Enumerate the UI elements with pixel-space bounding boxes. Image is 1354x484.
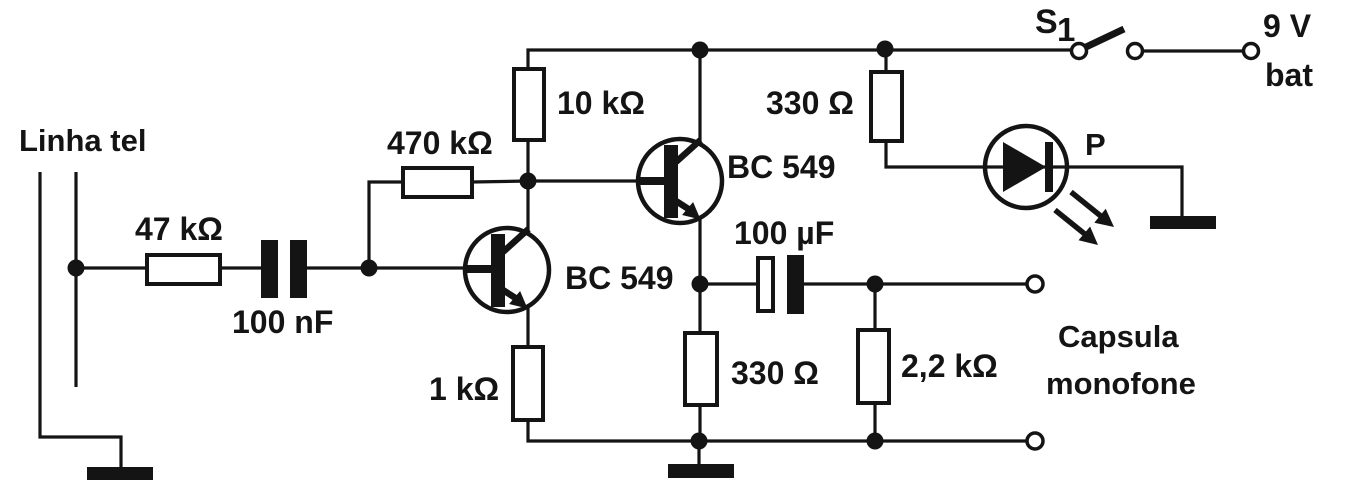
wire: top supply rail bbox=[528, 50, 1071, 69]
wire: 47k to C1 bbox=[222, 266, 262, 269]
capacitor C2 100 uF bbox=[758, 255, 804, 314]
ground (LED) bbox=[1150, 216, 1216, 229]
svg-text:100 µF: 100 µF bbox=[734, 215, 834, 251]
wire: node B to 10k bottom bbox=[526, 140, 529, 181]
svg-text:P: P bbox=[1085, 127, 1106, 162]
svg-text:2,2 kΩ: 2,2 kΩ bbox=[901, 348, 998, 384]
node C: emitter node bbox=[692, 276, 709, 293]
wire: 330 emitter resistor to rail bbox=[698, 405, 701, 441]
wire: telephone line conductor 2 bbox=[74, 172, 77, 387]
LED light arrow 2 bbox=[1055, 210, 1098, 245]
wire: C1 to node A bbox=[307, 266, 369, 269]
node B bbox=[520, 173, 537, 190]
resistor R2 470 kOhm bbox=[403, 168, 472, 197]
wire: ground stub bbox=[697, 441, 700, 466]
wire: node B down to Q1 collector bbox=[526, 181, 529, 231]
svg-text:S: S bbox=[1035, 3, 1058, 41]
node: rail / 2.2k bbox=[867, 433, 884, 450]
terminal: capsula bottom bbox=[1027, 433, 1043, 449]
wire: node D to 2.2k bbox=[873, 284, 876, 330]
transistor Q1 BC549 bbox=[465, 228, 549, 312]
resistor R6 2,2 kOhm bbox=[858, 330, 889, 403]
resistor R4 1 kOhm bbox=[513, 347, 543, 420]
svg-text:470 kΩ: 470 kΩ bbox=[387, 125, 493, 161]
wire: Q2 emitter down bbox=[698, 219, 701, 284]
wire: rail to 330 LED resistor bbox=[884, 50, 887, 72]
ground (telephone line) bbox=[87, 467, 153, 480]
wire: node A to Q1 base bbox=[369, 266, 466, 269]
wire: C2 to node D bbox=[804, 282, 875, 285]
svg-text:BC 549: BC 549 bbox=[565, 260, 674, 296]
resistor R3 10 kOhm bbox=[514, 69, 544, 140]
wire: node B to Q2 base bbox=[528, 179, 640, 182]
svg-text:1 kΩ: 1 kΩ bbox=[429, 371, 499, 407]
svg-text:Linha tel: Linha tel bbox=[19, 123, 146, 158]
wire: node D to output terminal bbox=[875, 282, 1027, 285]
wire: Q1 emitter to 1k bbox=[526, 308, 529, 347]
svg-text:1: 1 bbox=[1057, 11, 1075, 48]
svg-text:47 kΩ: 47 kΩ bbox=[135, 211, 223, 247]
node: rail / Q2 collector bbox=[692, 42, 709, 59]
wire: node C to 330 emitter resistor bbox=[698, 284, 701, 333]
wire: input to 47k bbox=[76, 266, 147, 269]
ground (main) bbox=[668, 464, 734, 478]
node: rail / 330 emitter resistor bbox=[691, 433, 708, 450]
svg-text:9 V: 9 V bbox=[1263, 8, 1312, 44]
wire: 470k right to node B bbox=[472, 181, 528, 182]
node: input junction bbox=[68, 260, 85, 277]
node A bbox=[361, 260, 378, 277]
wire: 2.2k to rail bbox=[873, 403, 876, 441]
svg-text:bat: bat bbox=[1265, 57, 1313, 93]
wire: node C to C2 bbox=[700, 282, 758, 285]
node D bbox=[867, 276, 884, 293]
svg-text:Capsula: Capsula bbox=[1058, 319, 1179, 354]
svg-text:10 kΩ: 10 kΩ bbox=[557, 85, 645, 121]
resistor R5 330 Ohm (emitter) bbox=[685, 333, 717, 405]
wire: node A up to 470k bbox=[369, 182, 403, 268]
switch S1 bbox=[1072, 29, 1143, 59]
svg-text:330 Ω: 330 Ω bbox=[766, 85, 854, 121]
node: rail / 330 LED resistor bbox=[877, 41, 894, 58]
svg-text:monofone: monofone bbox=[1046, 366, 1196, 401]
svg-text:100 nF: 100 nF bbox=[232, 304, 333, 340]
transistor Q2 BC549 bbox=[638, 139, 722, 223]
wire: Q2 collector to rail bbox=[698, 50, 701, 141]
wire: bottom ground rail bbox=[528, 420, 1026, 441]
terminal: capsula top bbox=[1027, 276, 1043, 292]
wire: switch to battery terminal bbox=[1143, 49, 1243, 52]
wire: 330 LED resistor to LED and ground bbox=[886, 141, 1182, 216]
terminal: battery 9V bbox=[1244, 44, 1259, 59]
svg-text:330 Ω: 330 Ω bbox=[731, 355, 819, 391]
svg-text:BC 549: BC 549 bbox=[727, 149, 836, 185]
wire: telephone line conductor 1 bbox=[40, 172, 121, 468]
resistor R1 47 kOhm bbox=[147, 255, 220, 284]
resistor R7 330 Ohm (LED) bbox=[871, 72, 902, 141]
capacitor C1 100 nF bbox=[261, 240, 307, 298]
LED light arrow 1 bbox=[1071, 192, 1114, 227]
LED P bbox=[985, 126, 1067, 208]
